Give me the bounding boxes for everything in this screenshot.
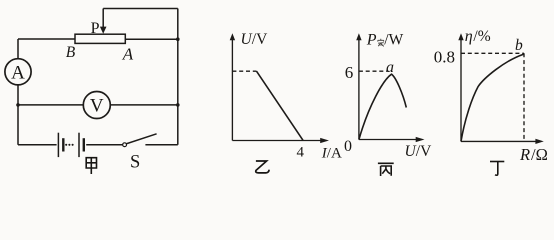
switch S pivot <box>123 143 127 147</box>
graph DING: dashed eta=0.8 <box>461 52 524 54</box>
graph YI: U-I line <box>257 71 304 140</box>
svg-text:/V: /V <box>252 31 268 48</box>
label 丁 (drawn strokes) <box>490 162 504 176</box>
svg-text:R: R <box>519 145 530 164</box>
svg-text:b: b <box>515 37 523 54</box>
battery cell plate short 1 <box>62 138 64 151</box>
graph DING: efficiency curve <box>461 54 524 141</box>
svg-text:4: 4 <box>297 144 305 160</box>
svg-text:A: A <box>11 62 25 83</box>
wire slider stem <box>102 9 104 28</box>
svg-text:P: P <box>366 31 377 48</box>
svg-text:6: 6 <box>345 63 354 82</box>
label 丙 (drawn strokes) <box>378 163 394 176</box>
node junction left rail / voltmeter branch <box>16 103 20 107</box>
graph BING: dashed at P=6 <box>359 70 388 72</box>
wire left rail lower (ammeter to bottom corner) <box>17 85 19 145</box>
node junction right rail / terminal A <box>176 37 180 41</box>
graph YI: y-axis <box>230 33 329 143</box>
label subscript 实 (drawn) <box>378 39 384 47</box>
svg-text:/Ω: /Ω <box>531 145 548 164</box>
wire switch to bottom right corner <box>145 144 177 146</box>
wire right rail <box>177 9 179 145</box>
wire terminal B to left rail <box>18 38 75 40</box>
graph BING: power curve <box>359 74 406 139</box>
wire top (slider to right rail) <box>103 8 178 10</box>
svg-text:/%: /% <box>473 28 490 45</box>
svg-text:B: B <box>66 44 76 61</box>
svg-text:0: 0 <box>344 138 352 155</box>
wire battery to switch <box>86 144 122 146</box>
wire slider arrowhead <box>100 27 107 34</box>
svg-text:/V: /V <box>416 143 432 160</box>
svg-text:A: A <box>122 44 134 63</box>
graph YI: dashed U-intercept <box>232 70 256 72</box>
svg-text:0.8: 0.8 <box>434 48 455 67</box>
svg-text:a: a <box>386 59 394 76</box>
label 甲 (drawn strokes) <box>86 158 96 174</box>
svg-text:S: S <box>130 152 140 172</box>
graph DING: x-axis <box>461 140 537 142</box>
graph BING: x-axis <box>359 139 417 141</box>
wire left rail upper (corner to ammeter) <box>17 39 19 59</box>
svg-text:P: P <box>91 20 100 37</box>
svg-text:η: η <box>465 28 473 45</box>
wire voltmeter branch left <box>18 104 83 106</box>
voltmeter V1 <box>83 92 110 119</box>
resistor P (potentiometer body) <box>75 34 125 43</box>
ammeter A1 <box>5 59 31 85</box>
label 乙 (drawn strokes) <box>256 161 269 173</box>
battery cell plate long 2 <box>78 133 80 157</box>
graph DING: y-axis <box>458 33 544 144</box>
wire terminal A to right rail <box>125 38 178 40</box>
svg-text:/W: /W <box>384 31 403 48</box>
svg-text:V: V <box>90 96 104 117</box>
graph BING: y-axis <box>356 33 424 142</box>
graph YI: x-axis <box>232 140 321 142</box>
graph DING: dashed vertical at b <box>523 53 525 141</box>
node junction right rail / voltmeter branch <box>176 103 180 107</box>
battery cell plate long 1 <box>57 133 59 157</box>
wire voltmeter branch right <box>110 104 178 106</box>
svg-text:/A: /A <box>327 145 342 161</box>
battery dots <box>65 144 67 146</box>
switch S blade <box>127 134 157 144</box>
battery cell plate short 2 <box>83 138 85 151</box>
wire bottom left (corner to battery) <box>18 144 57 146</box>
